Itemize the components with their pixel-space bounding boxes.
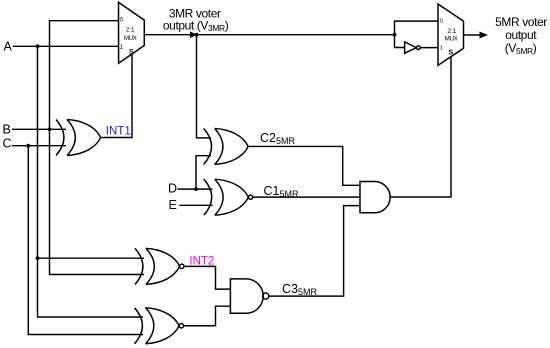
svg-text:1: 1	[120, 44, 124, 51]
wire C to XOR INT1	[12, 145, 66, 147]
svg-text:S: S	[448, 47, 453, 56]
wire INT2 output to NAND top input	[184, 266, 230, 289]
svg-text:output: output	[505, 28, 537, 42]
svg-text:2:1: 2:1	[447, 28, 456, 35]
wire C1 output to AND middle input	[253, 196, 360, 198]
wire V3MR output to right junction	[144, 34, 394, 36]
wire inverter to MUX2 input 1	[420, 47, 438, 49]
node A to upper XNOR junction	[36, 256, 40, 260]
node right junction	[393, 33, 397, 37]
svg-text:0: 0	[440, 18, 443, 24]
node C junction	[26, 144, 30, 148]
svg-text:INT1: INT1	[106, 125, 131, 137]
xnor lower (A xnor C)	[135, 308, 180, 344]
bubble NAND	[263, 293, 269, 299]
wire V3MR down to XOR C2 top input	[197, 35, 212, 138]
xor C2 (V3MR xor D)	[204, 128, 249, 164]
wire C vertical down to lower XNOR bottom input	[28, 146, 143, 335]
wire E to XNOR C1	[179, 204, 212, 206]
node D junction	[194, 187, 198, 191]
mux U2 2:1 right	[438, 4, 464, 65]
inverter	[405, 42, 417, 53]
wire A branch to upper XNOR top input	[38, 257, 145, 259]
wire D up to XOR C2 bottom input	[196, 156, 211, 189]
wire B vertical: up to MUX1 input 0, down to upper XNOR	[50, 21, 145, 275]
wire lower XNOR output to NAND bottom input	[184, 306, 231, 326]
wire D to XNOR C1	[177, 188, 212, 190]
svg-text:MUX: MUX	[124, 36, 137, 42]
bubble inverter	[417, 46, 421, 50]
svg-text:D: D	[168, 182, 177, 196]
bubble lower XNOR	[179, 324, 183, 328]
svg-text:C: C	[3, 137, 12, 151]
wire C2 output to AND top input	[248, 146, 360, 185]
wire INT1 output up to MUX1 select	[101, 54, 132, 138]
svg-text:B: B	[3, 123, 11, 137]
svg-text:1: 1	[440, 46, 443, 52]
node V3MR junction	[195, 33, 199, 37]
xnor C1 (D xnor E)	[204, 179, 249, 215]
wire junction up to MUX2 input 0	[395, 21, 439, 35]
wire A vertical down to lower XNOR	[38, 46, 144, 317]
svg-text:INT2: INT2	[189, 255, 214, 267]
wire B to XOR INT1	[12, 128, 66, 130]
node A junction	[36, 44, 40, 48]
svg-text:A: A	[4, 40, 13, 54]
mux U1 2:1 left	[119, 2, 145, 63]
xnor INT2 (A xnor B)	[135, 248, 180, 284]
wire AND output to MUX2 select	[390, 57, 451, 197]
node B junction	[48, 127, 52, 131]
arrowhead on V3MR wire	[190, 31, 197, 38]
nand C3	[230, 279, 263, 313]
wire C3 output to AND bottom input	[269, 206, 360, 297]
bubble C1	[249, 195, 253, 199]
and gate	[360, 182, 390, 213]
wire V5MR output with arrowhead	[464, 34, 481, 36]
xor INT1 (B xor C)	[56, 120, 101, 156]
svg-text:MUX: MUX	[445, 35, 458, 42]
wire A to MUX1 input 1	[13, 45, 119, 47]
wire junction down to inverter	[395, 35, 405, 48]
bubble INT2	[180, 264, 184, 268]
svg-text:E: E	[169, 198, 177, 212]
svg-text:2:1: 2:1	[126, 27, 135, 34]
